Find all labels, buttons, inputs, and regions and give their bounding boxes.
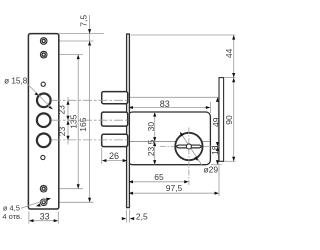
- extension bar top: [225, 77, 236, 79]
- bolt 1 side: [102, 92, 128, 104]
- extension bar bottom: [225, 160, 236, 162]
- svg-text:33: 33: [40, 212, 50, 222]
- pin hole small top: [41, 82, 45, 86]
- screw hole S4: [40, 199, 47, 206]
- svg-text:ø29: ø29: [203, 164, 218, 174]
- bolt hole B3 front: [37, 134, 51, 148]
- extension line screw S4: [50, 201, 94, 203]
- svg-text:23: 23: [56, 105, 66, 115]
- svg-text:4 отв.: 4 отв.: [2, 212, 22, 221]
- svg-text:135: 135: [69, 114, 79, 128]
- svg-text:7,5: 7,5: [78, 15, 88, 27]
- leader diameter 15.8: [27, 84, 53, 110]
- svg-text:26: 26: [109, 151, 119, 161]
- screw hole S3: [40, 185, 47, 192]
- dimension line 44 / 90: [232, 35, 235, 161]
- svg-text:30: 30: [146, 122, 156, 132]
- extension line top of faceplate front: [59, 33, 104, 35]
- case mid partition line: [129, 141, 210, 143]
- leader diameter 29: [180, 132, 203, 166]
- svg-text:65: 65: [154, 172, 164, 182]
- faceplate side strip: [127, 34, 130, 208]
- extension line screw S3: [50, 188, 83, 190]
- bolt hole B2 front: [37, 113, 51, 127]
- dimension line 165 with 7.5: [88, 15, 91, 202]
- dimension 97.5: [129, 192, 220, 195]
- svg-text:90: 90: [224, 115, 234, 125]
- bolt hole B1 front: [37, 94, 51, 108]
- extension bolt1 axis: [130, 96, 222, 98]
- dimension 33 under faceplate: [29, 212, 58, 224]
- svg-text:23: 23: [57, 127, 67, 137]
- extension line screw S2: [50, 54, 83, 56]
- bolt 3 side: [102, 134, 128, 146]
- pin hole small bottom: [41, 155, 45, 159]
- dimension 83 case width: [128, 102, 210, 113]
- key slot center boss: [186, 144, 191, 149]
- svg-text:44: 44: [224, 48, 234, 58]
- screw hole S1: [40, 38, 47, 45]
- svg-text:165: 165: [78, 117, 88, 131]
- dimension line 135: [77, 55, 80, 189]
- extension line screw S1: [50, 40, 94, 42]
- leader diameter 4.5: [21, 198, 51, 209]
- svg-text:83: 83: [160, 99, 170, 109]
- side view: lock case: [128, 112, 210, 165]
- extension bar bottom to 97.5: [218, 166, 220, 197]
- dimension 26 bolt length: [102, 148, 128, 165]
- dimension 65: [129, 180, 189, 183]
- key slot: [176, 145, 203, 148]
- dimension line 49 / 18: [216, 97, 219, 164]
- dimension line 30 / 23.5: [153, 112, 156, 165]
- svg-text:ø 15,8: ø 15,8: [4, 76, 28, 85]
- extension cylinder axis right: [211, 146, 222, 148]
- extension case bottom right: [211, 164, 222, 166]
- bolt 2 side: [102, 112, 128, 126]
- projection line hole row 2: [52, 119, 127, 121]
- dimension 2.5 strip thickness: [122, 210, 134, 223]
- faceplate front view: [28, 34, 58, 209]
- protector bar side: [219, 78, 224, 162]
- cylinder vertical centerline: [188, 128, 190, 186]
- svg-text:23,5: 23,5: [146, 139, 156, 156]
- projection line hole row 1: [52, 99, 127, 101]
- dimension line 23/23: [66, 97, 69, 145]
- projection line hole row 3: [52, 139, 127, 141]
- svg-text:97,5: 97,5: [166, 183, 183, 193]
- extension strip top to 44 line: [131, 34, 236, 36]
- screw hole S2: [40, 51, 47, 58]
- svg-text:2,5: 2,5: [136, 211, 148, 221]
- cylinder circle diameter 29: [175, 133, 202, 160]
- cylinder horizontal centerline: [160, 146, 175, 148]
- leader diameter 29 arrows: [180, 132, 198, 161]
